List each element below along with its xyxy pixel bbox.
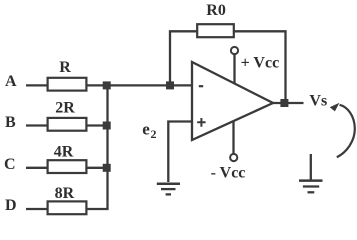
wire input C [26, 167, 108, 169]
wire -Vcc stub [232, 121, 234, 154]
svg-text:D: D [5, 197, 17, 214]
svg-text:2R: 2R [55, 100, 75, 117]
resistor 8R (box) [48, 201, 87, 214]
svg-text:4R: 4R [54, 144, 74, 161]
resistor 4R (box) [48, 160, 87, 173]
wire feedback loop [170, 31, 286, 103]
junction node bus-A [103, 81, 111, 89]
wire input D and summing bus vertical [26, 84, 108, 209]
svg-text:B: B [5, 114, 16, 131]
svg-text:2: 2 [151, 127, 157, 141]
junction node output [280, 99, 288, 107]
curved arrow (Vs polarity reference) [337, 105, 355, 157]
svg-text:Vs: Vs [309, 92, 327, 109]
wire output to Vs [272, 102, 304, 104]
terminal circle -Vcc [230, 154, 237, 161]
arrowhead [330, 103, 340, 112]
svg-text:R: R [59, 59, 71, 76]
ground symbol (non-inverting input) [157, 184, 180, 195]
terminal circle +Vcc [231, 47, 238, 54]
svg-text:+ Vcc: + Vcc [241, 55, 280, 72]
op-amp minus input symbol [199, 85, 203, 87]
svg-text:A: A [5, 73, 17, 90]
resistor R (box) [48, 78, 87, 91]
svg-text:R0: R0 [206, 2, 226, 19]
op-amp U1 [192, 62, 273, 140]
wire non-inverting input to ground [168, 122, 193, 183]
svg-text:- Vcc: - Vcc [211, 164, 246, 181]
wire input A to op-amp inverting input [26, 84, 193, 86]
svg-text:C: C [4, 156, 16, 173]
wire +Vcc stub [233, 55, 235, 84]
op-amp plus input symbol [197, 118, 205, 127]
ground symbol (right, output reference) [299, 154, 323, 192]
junction node bus-B [103, 122, 111, 130]
svg-text:e: e [142, 119, 150, 138]
resistor R0 (box) [197, 24, 234, 37]
junction node bus-C [103, 164, 111, 172]
wire input B [26, 124, 108, 126]
svg-text:8R: 8R [55, 185, 75, 202]
resistor 2R (box) [48, 118, 87, 131]
junction node feedback-input [166, 81, 174, 89]
